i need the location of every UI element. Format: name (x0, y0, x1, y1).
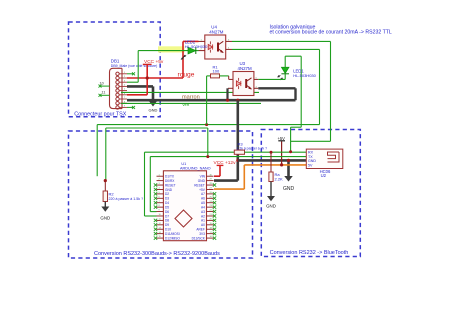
svg-text:GND: GND (100, 216, 110, 221)
svg-text:HL-503H030: HL-503H030 (185, 44, 208, 49)
svg-text:RESET: RESET (165, 183, 176, 187)
svg-text:HL-503H030: HL-503H030 (293, 73, 316, 78)
svg-text:11: 11 (102, 91, 106, 95)
svg-text:VCC +5v: VCC +5v (144, 59, 164, 65)
svg-text:ARDUINO_NANO: ARDUINO_NANO (180, 166, 211, 170)
svg-text:A3: A3 (201, 210, 205, 214)
svg-text:VIN: VIN (200, 175, 206, 179)
svg-text:rouge: rouge (178, 71, 195, 78)
svg-text:A6: A6 (201, 197, 205, 201)
svg-text:D12/MISO: D12/MISO (165, 236, 180, 240)
svg-text:R2: R2 (109, 191, 115, 196)
svg-text:100: 100 (213, 68, 220, 73)
svg-text:A7: A7 (201, 192, 205, 196)
svg-text:DB1: DB1 (111, 58, 120, 63)
svg-text:+5V: +5V (199, 188, 206, 192)
svg-text:marron: marron (182, 94, 200, 100)
svg-text:RX: RX (308, 150, 314, 154)
svg-text:A1: A1 (201, 219, 205, 223)
svg-text:GND: GND (149, 108, 158, 113)
svg-text:2.2k à passer à ?k ?: 2.2k à passer à ?k ? (237, 146, 268, 150)
svg-text:GND: GND (266, 204, 276, 209)
svg-text:D4: D4 (165, 201, 169, 205)
svg-text:220 à passer à 1.5k ?: 220 à passer à 1.5k ? (109, 197, 144, 201)
svg-text:5V: 5V (308, 164, 313, 168)
svg-text:4N27M: 4N27M (209, 29, 223, 34)
svg-text:D7: D7 (165, 214, 169, 218)
svg-text:A0: A0 (201, 223, 205, 227)
svg-text:GND: GND (283, 186, 295, 192)
svg-text:GND: GND (308, 159, 316, 163)
svg-text:D5: D5 (165, 205, 169, 209)
svg-text:D11/MOSI: D11/MOSI (165, 232, 180, 236)
svg-text:vert: vert (183, 102, 191, 107)
svg-text:3V3: 3V3 (199, 232, 205, 236)
svg-text:D0/RX: D0/RX (165, 179, 175, 183)
svg-text:D9: D9 (165, 223, 169, 227)
svg-text:Conversion RS232 -> BlueTooth: Conversion RS232 -> BlueTooth (270, 250, 349, 256)
svg-text:A5: A5 (201, 201, 205, 205)
svg-text:Conversion RS232-300Bauds-> RS: Conversion RS232-300Bauds-> RS232-9200Ba… (94, 251, 220, 257)
svg-text:A4: A4 (201, 205, 205, 209)
svg-text:D6: D6 (165, 210, 169, 214)
svg-text:D1/TX: D1/TX (165, 175, 175, 179)
svg-text:RESET: RESET (194, 183, 205, 187)
svg-text:et conversion boucle de couran: et conversion boucle de courant 20mA -> … (270, 30, 392, 36)
svg-text:D8: D8 (165, 219, 169, 223)
svg-text:10: 10 (100, 81, 104, 85)
svg-text:U2: U2 (321, 173, 327, 178)
svg-text:+5V: +5V (278, 136, 286, 141)
svg-text:D3: D3 (165, 197, 169, 201)
svg-text:D10: D10 (165, 228, 171, 232)
svg-text:A2: A2 (201, 214, 205, 218)
svg-text:D13/SCK: D13/SCK (192, 236, 206, 240)
svg-text:D2: D2 (165, 192, 169, 196)
svg-text:GND: GND (198, 179, 206, 183)
svg-text:Connecteur pour TSX: Connecteur pour TSX (74, 111, 126, 117)
svg-text:4N27M: 4N27M (238, 66, 252, 71)
svg-text:2.2K: 2.2K (275, 176, 284, 181)
svg-text:AREF: AREF (196, 228, 205, 232)
svg-text:GND: GND (165, 188, 173, 192)
